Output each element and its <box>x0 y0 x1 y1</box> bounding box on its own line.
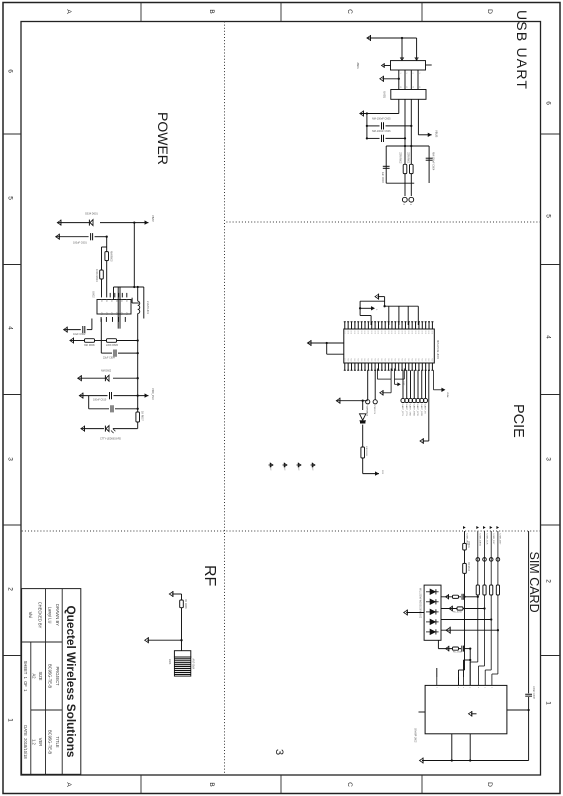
svg-text:RSV: RSV <box>367 358 369 362</box>
reset test rings <box>374 370 376 400</box>
wire DET pin row <box>469 649 471 686</box>
svg-text:3V3: 3V3 <box>381 470 383 475</box>
wires J601 to U601 x4 <box>417 70 419 90</box>
svg-text:PROJECT: PROJECT <box>55 666 60 686</box>
ESD array U603 body <box>424 585 441 640</box>
wire loop right <box>386 182 414 184</box>
svg-text:Quectel Wireless Solutions: Quectel Wireless Solutions <box>64 606 78 758</box>
svg-text:1: 1 <box>411 73 413 74</box>
J604 right pin comb <box>345 363 433 370</box>
node C603b top <box>137 352 139 354</box>
svg-text:VER: VER <box>38 738 43 746</box>
node C601 top <box>106 236 108 238</box>
svg-text:Lawyi LU: Lawyi LU <box>48 607 53 624</box>
svg-text:NC: NC <box>283 468 285 471</box>
svg-text:RSV: RSV <box>404 358 406 362</box>
section divider dashed vertical PCIE/SIM <box>21 530 541 532</box>
capacitor C603b <box>118 352 138 354</box>
svg-text:10uF C602: 10uF C602 <box>73 333 86 336</box>
UART terminator wires and test rings <box>425 370 427 398</box>
J601 top pin <box>426 64 432 66</box>
wires 3V3 bus to pins <box>417 306 419 325</box>
svg-text:100nF C608: 100nF C608 <box>532 686 534 699</box>
svg-text:GND: GND <box>427 331 429 335</box>
svg-text:UART_RTS: UART_RTS <box>401 404 404 416</box>
svg-text:GND: GND <box>373 331 375 335</box>
svg-text:RSV: RSV <box>353 358 355 362</box>
svg-text:GND: GND <box>394 331 396 335</box>
svg-text:RSV: RSV <box>350 358 352 362</box>
node bootstrap <box>133 286 135 288</box>
svg-text:RSV: RSV <box>373 358 375 362</box>
node chain <box>362 400 364 402</box>
wire loop bottom <box>385 146 387 183</box>
title block row line 2 <box>45 589 47 775</box>
off-page arrows at SIM boundary <box>463 526 466 529</box>
U602 right pins <box>124 317 126 322</box>
wire spare pin row <box>463 660 465 677</box>
wire gnd column right <box>336 400 367 402</box>
wire gnd bottom pins <box>307 342 343 344</box>
svg-text:5: 5 <box>545 214 552 218</box>
title block column line 2 <box>31 709 62 711</box>
LED D603 column <box>113 428 138 430</box>
svg-text:100uF C601: 100uF C601 <box>73 242 87 245</box>
svg-text:VBAT: VBAT <box>151 215 155 222</box>
svg-text:100K R604: 100K R604 <box>95 269 98 282</box>
svg-text:GND: GND <box>407 331 409 335</box>
title block outline <box>22 589 81 775</box>
ground flag rail <box>420 758 424 763</box>
diode D604 <box>360 414 366 420</box>
wire regulator EN rail <box>101 247 103 297</box>
section divider dashed vertical USB/PCIE <box>225 221 541 223</box>
ground flag C602 <box>64 327 68 332</box>
svg-text:RSV: RSV <box>387 358 389 362</box>
svg-text:GND: GND <box>363 331 365 335</box>
connector J604 mini-PCIe body <box>344 329 435 363</box>
svg-text:NC: NC <box>269 468 271 471</box>
svg-text:ANT-SMA: ANT-SMA <box>192 659 195 670</box>
svg-text:UART_RI: UART_RI <box>424 404 427 414</box>
svg-text:CHECKED BY: CHECKED BY <box>38 602 43 629</box>
svg-text:SW: SW <box>105 312 107 315</box>
wire U601 gnd pin <box>398 99 400 113</box>
wire feedback crossing 1 <box>119 287 121 329</box>
svg-text:6: 6 <box>7 69 14 73</box>
svg-text:4: 4 <box>7 326 14 330</box>
svg-text:RSV: RSV <box>356 358 358 362</box>
ESD ground <box>406 612 424 614</box>
wire gnd spur <box>366 114 368 139</box>
svg-text:UART_TXD: UART_TXD <box>409 404 412 416</box>
resistor R608 RF <box>180 600 184 608</box>
ground flag J601 <box>380 76 384 81</box>
SIM socket J602 body <box>425 685 507 733</box>
resistor R606 <box>85 339 95 343</box>
svg-text:GND: GND <box>383 331 385 335</box>
power flag chain <box>375 471 379 475</box>
node VDD to ESD <box>463 596 465 598</box>
regulator U602 body <box>97 300 131 315</box>
svg-text:2.2uH L601: 2.2uH L601 <box>146 301 149 315</box>
ground flag LED <box>81 426 85 431</box>
svg-text:RSV: RSV <box>390 358 392 362</box>
svg-text:RSV: RSV <box>380 358 382 362</box>
svg-text:GND: GND <box>387 331 389 335</box>
svg-text:GND: GND <box>367 331 369 335</box>
ground flag C601 <box>56 234 60 239</box>
title block row line 3 <box>30 642 32 774</box>
svg-text:GND: GND <box>346 331 348 335</box>
resistor R602 <box>403 164 407 173</box>
arrow clamp <box>446 646 449 650</box>
svg-text:1: 1 <box>375 309 377 311</box>
svg-text:RSV: RSV <box>400 358 402 362</box>
ground flag RF2 <box>145 638 149 643</box>
svg-text:RSV: RSV <box>431 358 433 362</box>
svg-text:GND: GND <box>356 331 358 335</box>
node fb top <box>137 339 139 341</box>
svg-text:RSV: RSV <box>394 358 396 362</box>
svg-text:3: 3 <box>7 457 14 461</box>
wire regulator VIN rail <box>106 237 108 298</box>
svg-text:c: c <box>490 687 492 688</box>
svg-text:GND: GND <box>380 331 382 335</box>
svg-text:SW: SW <box>125 312 127 315</box>
svg-text:22R R601: 22R R601 <box>407 152 410 164</box>
svg-text:USIM_CLK: USIM_CLK <box>485 534 487 545</box>
svg-text:VBUS: VBUS <box>435 130 439 138</box>
svg-text:NM D602: NM D602 <box>101 370 112 373</box>
svg-text:RSV: RSV <box>383 358 385 362</box>
svg-text:1: 1 <box>409 204 412 206</box>
svg-text:D: D <box>486 9 493 14</box>
svg-text:1uF C603: 1uF C603 <box>381 172 384 184</box>
node VSIM branch <box>527 709 529 711</box>
zener D602 <box>113 377 138 379</box>
series body clamp <box>453 647 459 650</box>
svg-text:VIN: VIN <box>105 299 107 303</box>
ESD filter U601 body <box>391 90 426 100</box>
ground flag PCIE left <box>375 294 379 299</box>
wire VBAT column <box>100 222 149 224</box>
U602 left pins <box>126 293 128 298</box>
wire pin8 stub <box>436 668 438 677</box>
svg-text:NC: NC <box>297 468 299 471</box>
node loop-DP <box>404 145 406 147</box>
wire gnd U-link right of J604 <box>390 369 392 380</box>
svg-text:1: 1 <box>418 73 420 74</box>
wire aux loop <box>360 300 385 302</box>
svg-text:4: 4 <box>545 335 552 339</box>
wire chain up <box>363 473 379 475</box>
wire VBUS out to flag <box>417 99 419 135</box>
svg-text:GND: GND <box>410 331 412 335</box>
svg-text:A: A <box>65 9 72 14</box>
svg-text:8: 8 <box>399 87 401 88</box>
svg-text:DRAWN BY: DRAWN BY <box>55 604 60 626</box>
ground flag PCIE bottom <box>307 341 311 346</box>
capacitor C604 <box>426 157 433 159</box>
svg-text:NC: NC <box>311 468 313 471</box>
svg-text:B: B <box>208 782 215 786</box>
svg-text:B: B <box>208 9 215 13</box>
wire VSIM into J602 <box>507 709 529 711</box>
wire J602 right pins to rail <box>469 734 471 761</box>
svg-text:UART_DTR: UART_DTR <box>416 404 419 416</box>
svg-text:GND: GND <box>350 331 352 335</box>
series resistors on signal rows <box>476 585 479 595</box>
resistor R610 <box>463 563 467 573</box>
svg-text:BC95G-TE-B: BC95G-TE-B <box>48 664 53 688</box>
svg-text:RSV: RSV <box>417 358 419 362</box>
svg-text:SIZE: SIZE <box>38 671 43 680</box>
antenna connector J603 threaded body <box>174 657 190 676</box>
wire loop top <box>386 145 429 147</box>
power flag 3V3 <box>145 393 149 397</box>
title block column line 1 <box>22 641 63 643</box>
LED D603 <box>106 426 109 432</box>
svg-text:2: 2 <box>402 204 405 206</box>
svg-text:8: 8 <box>405 87 407 88</box>
connector J601 body <box>391 61 426 70</box>
svg-text:RSV: RSV <box>414 358 416 362</box>
series body row A <box>453 595 459 598</box>
svg-text:0R R608: 0R R608 <box>184 599 187 609</box>
wire J601 shield ground <box>382 78 399 80</box>
wire RF trace <box>181 594 183 600</box>
wire VBAT to regulator <box>133 223 135 287</box>
svg-text:DATE 2018/10/18: DATE 2018/10/18 <box>23 725 28 759</box>
svg-text:USIM_RST: USIM_RST <box>492 534 494 546</box>
node gnd junction <box>366 112 368 114</box>
svg-text:PCIE: PCIE <box>510 404 526 438</box>
ground flag ring spur <box>420 439 423 443</box>
svg-text:USB UART: USB UART <box>514 10 530 90</box>
capacitor C605 <box>386 125 412 127</box>
wire RF stub down <box>147 639 181 641</box>
svg-text:GND: GND <box>377 331 379 335</box>
wire USB_DP rail <box>404 99 406 196</box>
power flag RF1 <box>172 593 182 595</box>
svg-text:1.2: 1.2 <box>32 739 37 745</box>
wire ring row upper spur <box>428 370 430 441</box>
svg-text:c: c <box>484 687 486 688</box>
node bus corner <box>383 305 385 307</box>
J602 left pins <box>491 677 493 685</box>
frame tick dividers bottom edge <box>3 133 21 135</box>
svg-text:D: D <box>486 782 493 787</box>
wire USIM_VDD row <box>464 531 466 543</box>
svg-text:USIM_DET: USIM_DET <box>499 534 501 546</box>
wire loop upper rail <box>428 146 430 183</box>
off-page arrow SIM_DET <box>397 382 400 386</box>
extra clamp column <box>437 640 439 648</box>
frame tick dividers left edge <box>421 3 423 22</box>
arrow row A <box>446 595 449 599</box>
svg-text:22uF C604: 22uF C604 <box>103 356 115 359</box>
svg-text:GND: GND <box>404 331 406 335</box>
svg-text:1: 1 <box>545 701 552 705</box>
resistor R603 <box>105 252 109 261</box>
wire VBUS to J601 pin A <box>416 38 418 61</box>
svg-text:SW: SW <box>100 312 102 315</box>
wire SW upper link <box>143 287 145 319</box>
svg-text:VIN: VIN <box>100 299 102 303</box>
capacitor C608 <box>525 693 532 695</box>
resistor R605 <box>107 339 117 343</box>
wire VDD jog to pin <box>459 669 465 671</box>
arrow row D <box>446 627 450 633</box>
svg-text:GND: GND <box>400 331 402 335</box>
capacitor C610s <box>463 646 465 652</box>
svg-text:1: 1 <box>7 718 14 722</box>
test point TP602 <box>402 197 407 202</box>
svg-text:RSV: RSV <box>424 358 426 362</box>
wire VBUS to J601 pin B <box>401 38 403 61</box>
ESD array verticals <box>465 596 478 598</box>
svg-text:GND: GND <box>424 331 426 335</box>
wire cap bottoms tie <box>88 396 90 409</box>
feedback divider column <box>117 340 138 342</box>
pin arrow J601 B <box>400 58 403 60</box>
resistor R607 on rail <box>136 412 140 422</box>
svg-text:RC-3216: RC-3216 <box>453 612 463 614</box>
svg-text:NM R603: NM R603 <box>109 251 112 262</box>
svg-text:10K R609: 10K R609 <box>365 446 367 457</box>
svg-text:SIM-8P J602: SIM-8P J602 <box>414 728 417 743</box>
power flag VBAT <box>145 220 149 224</box>
svg-text:UART_DCD: UART_DCD <box>420 404 423 416</box>
svg-text:RSV: RSV <box>377 358 379 362</box>
svg-text:39K R606: 39K R606 <box>84 344 95 347</box>
svg-text:100nF C610: 100nF C610 <box>93 399 107 402</box>
node D602 top <box>137 377 139 379</box>
wire C603b return <box>100 319 102 354</box>
svg-text:TITLE: TITLE <box>55 736 60 747</box>
node C606b rail <box>137 408 139 410</box>
section divider dashed horizontal <box>224 22 226 776</box>
wire VSIM top rail <box>528 531 530 693</box>
svg-text:MINI-PCIE J604: MINI-PCIE J604 <box>436 340 440 359</box>
svg-text:8: 8 <box>418 87 420 88</box>
svg-text:2: 2 <box>545 579 552 583</box>
svg-text:RF: RF <box>201 565 218 587</box>
no-connect arrows <box>311 464 316 466</box>
svg-text:C: C <box>346 9 353 14</box>
node gnd bottom <box>326 342 328 344</box>
wire bus to gnd flag <box>384 297 386 307</box>
svg-text:3: 3 <box>273 749 285 755</box>
svg-text:SW: SW <box>110 312 112 315</box>
ground flag U-link <box>380 391 383 395</box>
svg-text:A2: A2 <box>32 673 37 679</box>
wire EN tie <box>102 246 107 248</box>
svg-text:GND: GND <box>420 331 422 335</box>
J602 bottom edge pin <box>419 711 426 713</box>
svg-text:c: c <box>477 687 479 688</box>
wire bootstrap loop <box>114 286 144 288</box>
svg-text:3: 3 <box>545 457 552 461</box>
svg-text:A: A <box>65 782 72 787</box>
node loop-DM <box>410 145 412 147</box>
svg-text:U601: U601 <box>383 91 387 98</box>
svg-text:c: c <box>457 687 459 688</box>
svg-text:SS34 D601: SS34 D601 <box>85 213 98 216</box>
wire U602 out stub <box>100 318 102 320</box>
svg-text:USIM_DATA: USIM_DATA <box>479 534 482 547</box>
ground flag fb <box>70 338 74 343</box>
svg-text:RSV: RSV <box>397 358 399 362</box>
svg-text:UART_RXD: UART_RXD <box>412 404 415 416</box>
svg-text:c: c <box>435 687 437 688</box>
svg-text:22R R602: 22R R602 <box>398 152 401 164</box>
off-page arrow USIM <box>441 388 445 392</box>
svg-text:RSV: RSV <box>407 358 409 362</box>
jumper rings on signal rows <box>476 558 480 562</box>
svg-text:GND: GND <box>353 331 355 335</box>
capacitor C605b column <box>114 395 149 397</box>
wire USIM bundle to off-page arrow <box>433 370 435 390</box>
svg-text:RSV: RSV <box>363 358 365 362</box>
svg-text:VIN: VIN <box>115 299 117 303</box>
capacitor bootstrap C-BST <box>131 298 133 303</box>
svg-text:c: c <box>469 687 471 688</box>
wire ground rail right <box>422 760 529 762</box>
test point TP601 <box>409 197 414 202</box>
frame tick dividers right edge <box>421 775 423 794</box>
svg-text:USIM_VDD: USIM_VDD <box>465 534 467 546</box>
title block row line 1 <box>61 589 63 775</box>
svg-text:POWER: POWER <box>155 112 171 165</box>
svg-text:GND: GND <box>414 331 416 335</box>
pin arrow J601 A <box>415 58 418 60</box>
svg-text:GND: GND <box>370 331 372 335</box>
svg-text:GND: GND <box>431 331 433 335</box>
svg-text:220K R605: 220K R605 <box>106 344 119 347</box>
resistor R609 <box>361 447 365 458</box>
svg-text:WILLSEMI-WS05C06N U603: WILLSEMI-WS05C06N U603 <box>419 588 421 619</box>
svg-text:VIN: VIN <box>110 299 112 303</box>
svg-text:RSV: RSV <box>427 358 429 362</box>
wire LED chain <box>362 401 364 410</box>
svg-text:GND: GND <box>397 331 399 335</box>
svg-text:NM-100nF C604: NM-100nF C604 <box>432 152 435 171</box>
node VBAT branch <box>133 221 135 223</box>
ground flag U601 <box>360 111 364 116</box>
ground inside J602 <box>471 713 477 715</box>
diode D601 <box>90 220 93 226</box>
frame tick dividers top edge <box>541 133 561 135</box>
ground flag C605b <box>79 393 83 398</box>
power flag VBUS out <box>428 133 432 137</box>
svg-text:8: 8 <box>411 87 413 88</box>
svg-text:0R R610: 0R R610 <box>467 562 469 572</box>
wire C602 to U602 <box>91 319 93 330</box>
wire feedback crossing 2 <box>117 287 119 329</box>
svg-text:USIM: USIM <box>446 392 448 397</box>
svg-text:1: 1 <box>399 73 401 74</box>
svg-text:PERST#: PERST# <box>373 406 375 415</box>
svg-text:GND: GND <box>360 331 362 335</box>
svg-text:CTTY-LED0603-RD: CTTY-LED0603-RD <box>100 438 121 441</box>
power flag VBUS input <box>367 37 417 39</box>
svg-text:GND: GND <box>390 331 392 335</box>
svg-text:SW: SW <box>115 312 117 315</box>
ground flag D601 column <box>57 220 61 225</box>
resistor R604 <box>100 270 104 279</box>
